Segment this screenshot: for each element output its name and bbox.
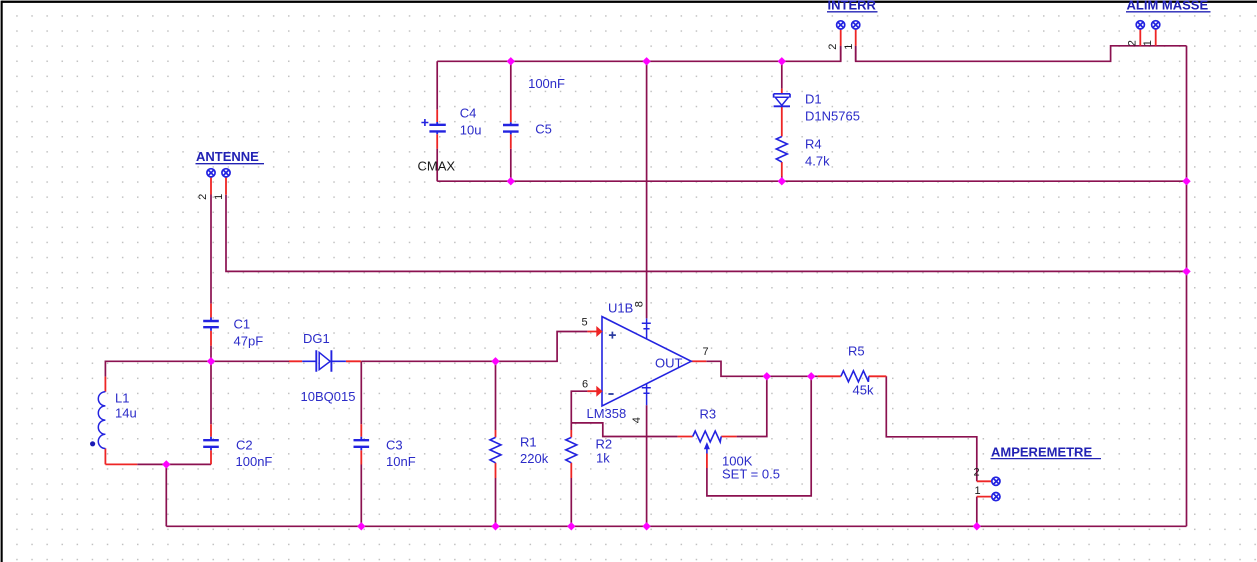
wire: red pins of R1	[495, 430, 497, 478]
wire: C1 bottom to main node	[210, 346, 212, 362]
capacitor C3 (10nF)	[354, 437, 370, 451]
capacitor C5 (100nF)	[503, 122, 519, 134]
svg-text:R2: R2	[596, 437, 613, 452]
op-amp plus input marker	[609, 332, 616, 339]
wire: right vertical bus	[1186, 46, 1188, 527]
wire: red pins of C3	[360, 424, 362, 464]
resistor R2 (1k) zigzag	[566, 437, 577, 462]
svg-text:C3: C3	[386, 437, 403, 452]
svg-text:6: 6	[582, 379, 588, 391]
svg-text:10u: 10u	[460, 123, 482, 138]
svg-text:2: 2	[827, 44, 839, 50]
svg-text:R4: R4	[805, 137, 822, 152]
svg-text:C5: C5	[535, 122, 552, 137]
op-amp input arrowheads pins 5 and 6	[596, 326, 602, 397]
wire: C5 branch vertical	[510, 61, 512, 181]
svg-text:ANTENNE: ANTENNE	[196, 149, 259, 164]
svg-text:INTERR: INTERR	[828, 0, 877, 13]
wire: red pins of D1 and R4	[781, 89, 783, 177]
junction: C5 top on bus	[507, 57, 515, 65]
svg-text:2: 2	[1127, 40, 1139, 46]
wire: R5 to ammeter	[886, 376, 977, 481]
inductor L1 (14u) coil	[98, 392, 105, 449]
svg-text:R3: R3	[700, 407, 717, 422]
svg-text:1: 1	[843, 44, 855, 50]
svg-text:R1: R1	[520, 435, 537, 450]
svg-text:220k: 220k	[520, 451, 549, 466]
svg-text:R5: R5	[848, 344, 865, 359]
svg-text:C2: C2	[236, 437, 253, 452]
wire: red pin stubs of connector INTERR	[841, 29, 856, 45]
wire: C2 column top	[210, 361, 212, 424]
wire: antenna pin 2 column down to C1	[210, 195, 212, 304]
wire: pin 6 feedback corner	[571, 391, 677, 436]
wire: center vertical (V+ to pin 8)	[646, 61, 648, 318]
capacitor C4 (polarized, 10u)	[421, 119, 445, 134]
inductor L1 phase dot	[90, 441, 95, 446]
junction: R2 on ground rail	[567, 522, 575, 530]
resistor R1 (220k) zigzag	[490, 437, 501, 462]
wire: red shafts of op-amp input pins 5 and 6	[587, 332, 596, 392]
svg-text:100nF: 100nF	[236, 454, 273, 469]
wire: red pins of R2	[570, 430, 572, 478]
wire: R1 column	[495, 361, 497, 526]
svg-text:5: 5	[582, 317, 588, 329]
op-amp power pin 4 stub with ticks	[642, 384, 651, 406]
junction: bus 2 right end	[1182, 177, 1190, 185]
wire: red pins of R5	[818, 375, 887, 377]
junction: D1 branch on top bus	[778, 57, 786, 65]
svg-text:L1: L1	[115, 391, 129, 406]
connector pin circle AMPEREMETRE pin 2	[992, 477, 1000, 485]
svg-text:SET = 0.5: SET = 0.5	[722, 467, 780, 482]
svg-text:47pF: 47pF	[234, 334, 264, 349]
svg-text:45k: 45k	[853, 383, 874, 398]
wire: red pin stubs of connector ALIM MASSE	[1140, 29, 1155, 46]
wire: top bus right segment (INTERR pin 1 to ALIM corner)	[856, 46, 1187, 62]
wire: bus 2 horizontal (CMAX net)	[437, 180, 1186, 182]
potentiometer R3 wiper arrow	[704, 442, 710, 454]
svg-text:2: 2	[197, 194, 209, 200]
wire: red pins of R3	[678, 437, 737, 469]
wire: C3 column	[360, 361, 362, 526]
svg-text:C4: C4	[460, 106, 477, 121]
svg-text:14u: 14u	[115, 406, 137, 421]
wire: R3 wiper to output node	[707, 376, 811, 496]
label: port ANTENNE	[196, 149, 265, 164]
capacitor C1 (47pF)	[203, 318, 219, 331]
op-amp power pin 8 stub with ticks	[642, 318, 651, 339]
junction: L1/C2 bottom node	[162, 460, 170, 468]
svg-text:7: 7	[703, 346, 709, 358]
wire: C4 branch vertical	[436, 61, 438, 181]
wire: red pin 7 of op-amp	[691, 360, 706, 362]
label: port ALIM MASSE	[1126, 0, 1211, 13]
potentiometer R3 (100K) zigzag	[693, 431, 722, 442]
diode DG1 (10BQ015 schottky)	[302, 350, 346, 372]
wire: center vertical (pin 4 to ground rail)	[646, 405, 648, 526]
svg-text:AMPEREMETRE: AMPEREMETRE	[991, 444, 1092, 459]
resistor R4 (4.7k) zigzag	[776, 137, 787, 163]
wire: ground rail	[166, 525, 1186, 527]
diode D1 (D1N5765 zener)	[774, 94, 790, 107]
label: port INTERR	[827, 0, 878, 13]
svg-text:2: 2	[974, 467, 980, 479]
wire: antenna net bus (pin 1 down and across)	[226, 195, 1187, 272]
svg-text:10nF: 10nF	[386, 454, 416, 469]
connector pin circle INTERR pin 1	[852, 21, 860, 29]
wire: red pins of C5	[510, 110, 512, 149]
capacitor C2 (100nF)	[203, 437, 219, 451]
svg-text:D1N5765: D1N5765	[805, 109, 860, 124]
svg-text:10BQ015: 10BQ015	[301, 389, 356, 404]
junction: R1 top node	[491, 357, 499, 365]
junction: R1 on ground rail	[491, 522, 499, 530]
wire: red pins of C2	[210, 424, 212, 464]
wire: main row C1 junction to DG1	[211, 360, 289, 362]
junction: center vertical on ground rail	[642, 522, 650, 530]
wire: left column from L1/C2 bottom	[165, 464, 167, 526]
wire: main row DG1 to op-amp pin 5 jog	[361, 332, 587, 362]
wire: D1/R4 branch vertical	[781, 61, 783, 181]
connector pin circle AMPEREMETRE pin 1	[992, 493, 1000, 501]
junction: R4 bottom on bus 2	[778, 177, 786, 185]
junction: C1 bottom node	[207, 357, 215, 365]
wire: red pin stubs of connector ANTENNE	[211, 177, 226, 195]
wire: red pins of C1	[210, 304, 212, 346]
svg-text:1: 1	[975, 485, 981, 497]
op-amp minus input marker	[608, 393, 613, 395]
svg-text:4.7k: 4.7k	[805, 154, 830, 169]
label: port AMPEREMETRE	[991, 444, 1102, 459]
connector pin circle ANTENNE pin 1	[222, 169, 230, 177]
svg-text:1: 1	[1142, 40, 1154, 46]
svg-text:8: 8	[633, 301, 645, 307]
svg-text:D1: D1	[805, 92, 822, 107]
junction: antenna bus right end	[1182, 267, 1190, 275]
wire: output pin 7 to R5	[706, 361, 818, 376]
connector pin circle ALIM MASSE pin 2	[1136, 21, 1144, 29]
op-amp U1B triangle	[602, 317, 691, 406]
svg-text:CMAX: CMAX	[418, 159, 456, 174]
connector pin circle ALIM MASSE pin 1	[1152, 21, 1160, 29]
wire: ammeter pin 1 to ground rail	[976, 497, 978, 527]
wire: red pins of C4	[436, 110, 438, 149]
svg-text:DG1: DG1	[303, 331, 330, 346]
wire: L1/C2 bottom row	[137, 463, 211, 465]
wire: top bus left segment (C4 loop top to INTERR pin 2)	[437, 46, 841, 62]
wire: red pins of DG1	[289, 360, 361, 362]
junction: R3 right on output net	[763, 372, 771, 380]
svg-text:C1: C1	[234, 317, 251, 332]
svg-text:LM358: LM358	[587, 406, 627, 421]
svg-text:100nF: 100nF	[528, 76, 565, 91]
wire: feedback row R3 right to output node	[737, 376, 767, 436]
junction: center vertical on top bus	[642, 57, 650, 65]
svg-text:1k: 1k	[596, 451, 610, 466]
junction: ammeter on ground rail	[973, 522, 981, 530]
svg-text:4: 4	[631, 417, 643, 423]
wire: D1 INTERR stub verticals	[841, 46, 856, 62]
svg-text:U1B: U1B	[608, 301, 633, 316]
svg-text:OUT: OUT	[655, 356, 683, 371]
svg-text:ALIM MASSE: ALIM MASSE	[1127, 0, 1209, 13]
svg-text:1: 1	[213, 194, 225, 200]
wire: red pins of L1	[105, 377, 137, 465]
junction: C3 on ground rail	[357, 522, 365, 530]
connector pin circle ANTENNE pin 2	[207, 169, 215, 177]
resistor R5 (45k) zigzag	[841, 371, 869, 382]
wire: R2 column bottom	[570, 478, 572, 526]
wire: red pin stubs of connector AMPEREMETRE	[977, 481, 992, 496]
junction: C4 bottom bus left	[507, 177, 515, 185]
junction: wiper on output net	[807, 372, 815, 380]
connector pin circle INTERR pin 2	[837, 21, 845, 29]
wire: main row L1 to C1 junction	[105, 361, 211, 376]
